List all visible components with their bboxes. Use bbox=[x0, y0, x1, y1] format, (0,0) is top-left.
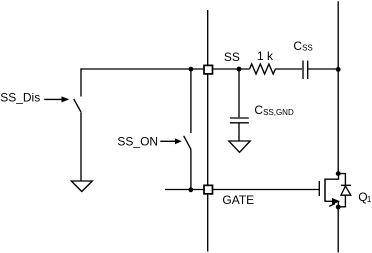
svg-text:SS: SS bbox=[224, 50, 240, 64]
svg-text:SS_Dis: SS_Dis bbox=[0, 90, 40, 104]
svg-text:1 k: 1 k bbox=[257, 49, 274, 63]
svg-text:SS_ON: SS_ON bbox=[117, 135, 158, 149]
svg-text:GATE: GATE bbox=[222, 193, 254, 207]
